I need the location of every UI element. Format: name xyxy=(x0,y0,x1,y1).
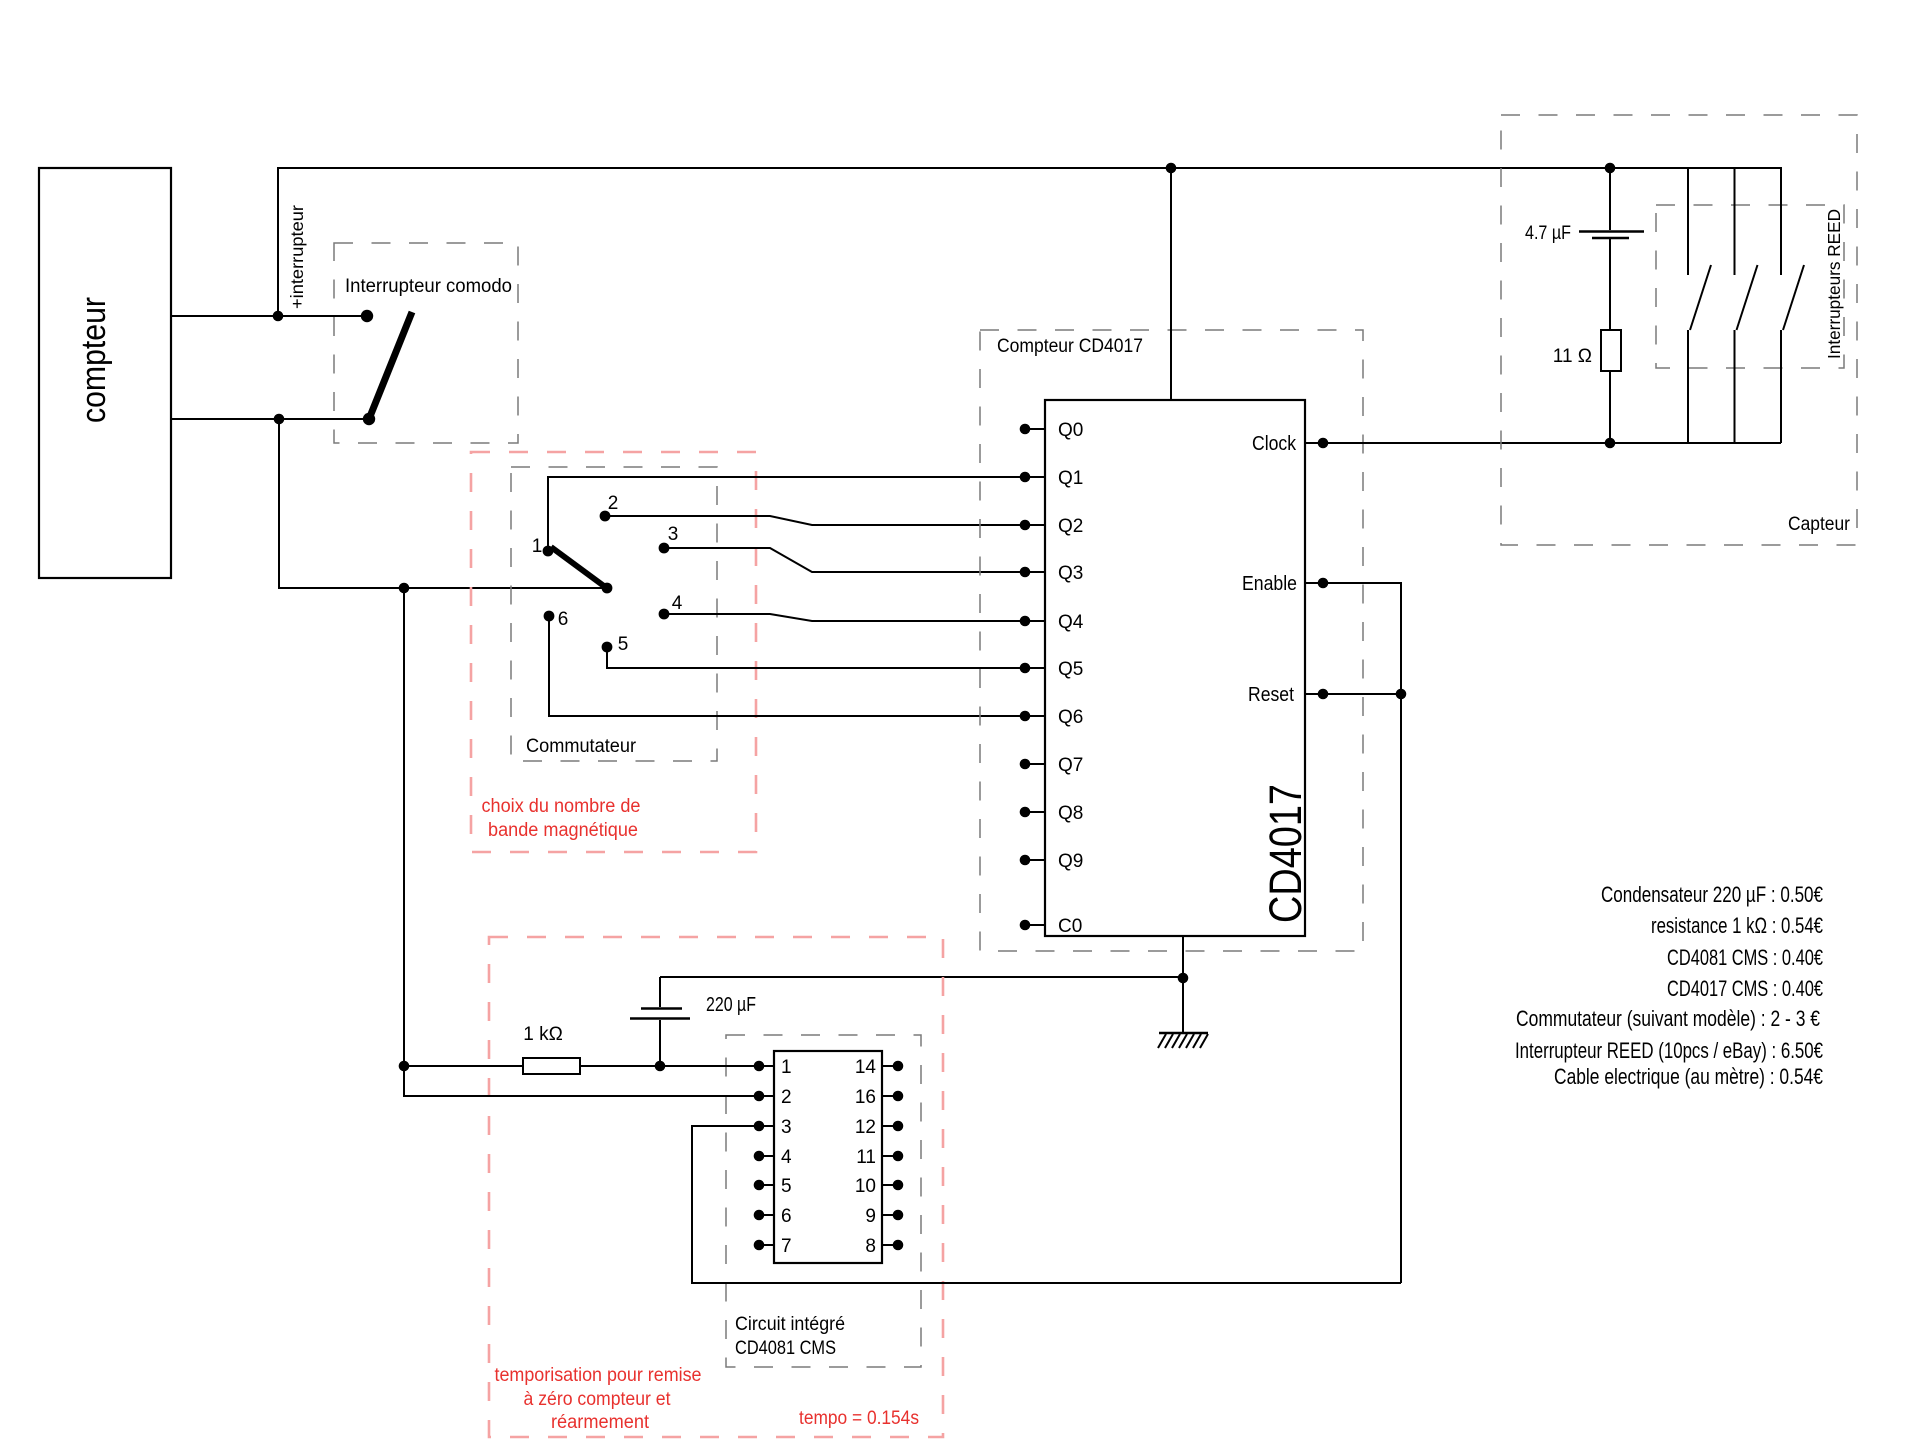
rotary contact 6 xyxy=(544,611,555,622)
Commutateur dashed box xyxy=(511,467,717,761)
pin 4 xyxy=(754,1147,792,1168)
node top bus to CD4017 xyxy=(1166,163,1177,174)
wire C0 bottom down xyxy=(1182,936,1184,1033)
pin 10 xyxy=(855,1176,903,1197)
pin Reset xyxy=(1248,684,1406,706)
capacitor C2 220uF xyxy=(630,977,756,1066)
svg-text:Q5: Q5 xyxy=(1058,659,1083,680)
pin Q7 xyxy=(1020,755,1084,776)
svg-text:10: 10 xyxy=(855,1176,876,1197)
pin Q6 xyxy=(1020,707,1084,728)
svg-text:Q0: Q0 xyxy=(1058,420,1083,441)
pin 6 xyxy=(754,1206,792,1227)
svg-text:1: 1 xyxy=(781,1057,792,1078)
op IC U2 CD4081 body xyxy=(774,1051,882,1263)
pin 16 xyxy=(855,1087,903,1108)
rotary contact 3 xyxy=(659,543,670,554)
svg-text:Cable electrique (au mètre) :: Cable electrique (au mètre) : 0.54€ xyxy=(1554,1064,1823,1089)
svg-text:CD4017 CMS : 0.40€: CD4017 CMS : 0.40€ xyxy=(1667,976,1823,1001)
rotary contact 1 xyxy=(543,546,554,557)
svg-text:8: 8 xyxy=(865,1236,876,1257)
wire contact1 to Q1 xyxy=(548,477,1025,551)
pin Q9 xyxy=(1020,851,1084,872)
svg-text:5: 5 xyxy=(781,1176,792,1197)
svg-text:9: 9 xyxy=(865,1206,876,1227)
svg-text:16: 16 xyxy=(855,1087,876,1108)
wire contact3 to Q3 xyxy=(664,548,1025,572)
svg-text:CD4081 CMS : 0.40€: CD4081 CMS : 0.40€ xyxy=(1667,945,1823,970)
svg-text:CD4081 CMS: CD4081 CMS xyxy=(735,1338,836,1359)
pin 1 xyxy=(754,1057,792,1078)
svg-text:+interrupteur: +interrupteur xyxy=(287,205,307,309)
wire top bus to IC xyxy=(1170,168,1172,400)
svg-text:Q9: Q9 xyxy=(1058,851,1083,872)
svg-text:Q8: Q8 xyxy=(1058,803,1083,824)
svg-text:5: 5 xyxy=(618,634,629,655)
CD4081 dashed box xyxy=(726,1035,921,1367)
svg-text:2: 2 xyxy=(781,1087,792,1108)
pin 5 xyxy=(754,1176,792,1197)
pin 8 xyxy=(865,1236,903,1257)
pin Clock xyxy=(1252,433,1781,455)
pin Q5 xyxy=(1020,659,1084,680)
svg-text:Enable: Enable xyxy=(1242,573,1297,595)
svg-text:compteur: compteur xyxy=(75,297,113,423)
svg-text:4: 4 xyxy=(672,593,683,614)
Compteur CD4017 dashed box xyxy=(980,330,1363,951)
pin Q0 xyxy=(1020,420,1084,441)
pin 3 xyxy=(754,1117,792,1138)
svg-text:C0: C0 xyxy=(1058,916,1082,937)
pin Q4 xyxy=(1020,612,1084,633)
svg-text:tempo = 0.154s: tempo = 0.154s xyxy=(799,1408,919,1429)
svg-text:220 µF: 220 µF xyxy=(706,994,756,1016)
svg-text:Interrupteurs REED: Interrupteurs REED xyxy=(1824,209,1844,359)
wire compteur top lead xyxy=(171,315,367,317)
svg-text:à zéro compteur et: à zéro compteur et xyxy=(524,1389,672,1410)
svg-text:Condensateur 220 µF : 0.50€: Condensateur 220 µF : 0.50€ xyxy=(1601,882,1823,907)
svg-text:Interrupteur REED (10pcs / eBa: Interrupteur REED (10pcs / eBay) : 6.50€ xyxy=(1515,1038,1823,1063)
switch S1 contact bottom xyxy=(363,413,375,425)
wire contact6 to Q6 xyxy=(549,616,1025,716)
wire contact2 to Q2 xyxy=(605,516,1025,525)
switch S1 contact top xyxy=(361,310,373,322)
wire vertical to top bus xyxy=(277,168,279,316)
node junction bottom lead xyxy=(274,414,285,425)
node C0 junction xyxy=(1178,973,1189,984)
pin 9 xyxy=(865,1206,903,1227)
resistor R2 1kohm xyxy=(404,1024,759,1074)
svg-text:choix du nombre de: choix du nombre de xyxy=(482,796,641,817)
svg-text:Q6: Q6 xyxy=(1058,707,1083,728)
svg-text:Reset: Reset xyxy=(1248,684,1294,706)
svg-text:7: 7 xyxy=(781,1236,792,1257)
node top bus to capteur xyxy=(1605,163,1616,174)
wire contact5 to Q5 xyxy=(607,647,1025,668)
svg-text:réarmement: réarmement xyxy=(551,1412,650,1433)
svg-text:Q4: Q4 xyxy=(1058,612,1084,633)
pin Enable xyxy=(1242,573,1401,694)
svg-text:12: 12 xyxy=(855,1117,876,1138)
svg-text:Q2: Q2 xyxy=(1058,516,1083,537)
wire compteur bottom lead xyxy=(171,418,369,420)
svg-text:3: 3 xyxy=(781,1117,792,1138)
compteur box xyxy=(39,168,171,578)
svg-text:14: 14 xyxy=(855,1057,877,1078)
svg-text:Commutateur: Commutateur xyxy=(526,736,637,757)
svg-text:CD4017: CD4017 xyxy=(1260,784,1311,923)
svg-text:3: 3 xyxy=(668,524,679,545)
svg-text:Commutateur (suivant modèle) :: Commutateur (suivant modèle) : 2 - 3 € xyxy=(1516,1006,1820,1031)
svg-text:Clock: Clock xyxy=(1252,433,1297,455)
wire pin2 xyxy=(404,1095,759,1097)
svg-text:11 Ω: 11 Ω xyxy=(1553,346,1592,367)
rotary pivot xyxy=(602,583,613,594)
ground xyxy=(1158,1033,1208,1048)
op IC U1 CD4017 body xyxy=(1045,400,1305,936)
rotary contact 2 xyxy=(600,511,611,522)
pin 12 xyxy=(855,1117,903,1138)
pin Q8 xyxy=(1020,803,1084,824)
reed switch 1 xyxy=(1688,168,1711,443)
wire reset vertical down xyxy=(1400,694,1402,1283)
svg-text:4: 4 xyxy=(781,1147,792,1168)
svg-text:11: 11 xyxy=(856,1147,876,1168)
wire pin3 L xyxy=(692,1126,1401,1283)
svg-text:Interrupteur comodo: Interrupteur comodo xyxy=(345,276,512,297)
resistor R1 11ohm xyxy=(1553,330,1621,443)
node junction 220uF bottom xyxy=(655,1061,666,1072)
svg-text:bande magnétique: bande magnétique xyxy=(488,820,638,841)
pin 7 xyxy=(754,1236,792,1257)
wire top bus xyxy=(277,167,1782,169)
pin Q1 xyxy=(1020,468,1084,489)
svg-text:Q7: Q7 xyxy=(1058,755,1083,776)
Interrupteur comodo dashed box xyxy=(334,243,518,443)
svg-text:6: 6 xyxy=(781,1206,792,1227)
svg-text:Circuit intégré: Circuit intégré xyxy=(735,1314,845,1335)
wire contact4 to Q4 xyxy=(664,614,1025,621)
wire C0 to 220uF xyxy=(660,976,1183,978)
Interrupteurs REED dashed box xyxy=(1656,205,1844,368)
node junction top lead xyxy=(273,311,284,322)
svg-text:resistance 1 kΩ : 0.54€: resistance 1 kΩ : 0.54€ xyxy=(1651,913,1823,938)
capacitor C1 4.7uF xyxy=(1525,168,1644,330)
svg-text:2: 2 xyxy=(608,493,619,514)
choix red dashed box xyxy=(471,452,756,852)
svg-text:Compteur CD4017: Compteur CD4017 xyxy=(997,336,1143,357)
node junction at x404 xyxy=(399,583,410,594)
temporisation red dashed box xyxy=(489,937,943,1437)
pin C0 xyxy=(1020,916,1083,937)
svg-text:temporisation pour remise: temporisation pour remise xyxy=(495,1365,702,1386)
rotary contact 4 xyxy=(659,609,670,620)
svg-text:Q3: Q3 xyxy=(1058,563,1083,584)
rotary lever xyxy=(551,547,608,589)
wire vertical x404 down xyxy=(403,588,405,1097)
svg-text:4.7 µF: 4.7 µF xyxy=(1525,223,1571,244)
pin Q3 xyxy=(1020,563,1084,584)
reed switch 2 xyxy=(1735,168,1758,443)
price list xyxy=(1515,882,1823,1089)
pin Q2 xyxy=(1020,516,1084,537)
switch S1 lever xyxy=(369,312,412,419)
Capteur dashed box xyxy=(1501,115,1857,545)
pin 2 xyxy=(754,1087,792,1108)
svg-text:Q1: Q1 xyxy=(1058,468,1083,489)
rotary contact 5 xyxy=(602,642,613,653)
node junction 1k left xyxy=(399,1061,410,1072)
wire bottom lead down and right to commutateur xyxy=(279,419,607,588)
node clock capteur junction xyxy=(1605,438,1616,449)
pin 14 xyxy=(855,1057,903,1078)
pin 11 xyxy=(856,1147,903,1168)
svg-text:1 kΩ: 1 kΩ xyxy=(523,1024,563,1045)
svg-text:1: 1 xyxy=(532,536,543,557)
reed switch 3 xyxy=(1781,168,1804,443)
svg-text:6: 6 xyxy=(558,609,569,630)
svg-text:Capteur: Capteur xyxy=(1788,514,1851,535)
